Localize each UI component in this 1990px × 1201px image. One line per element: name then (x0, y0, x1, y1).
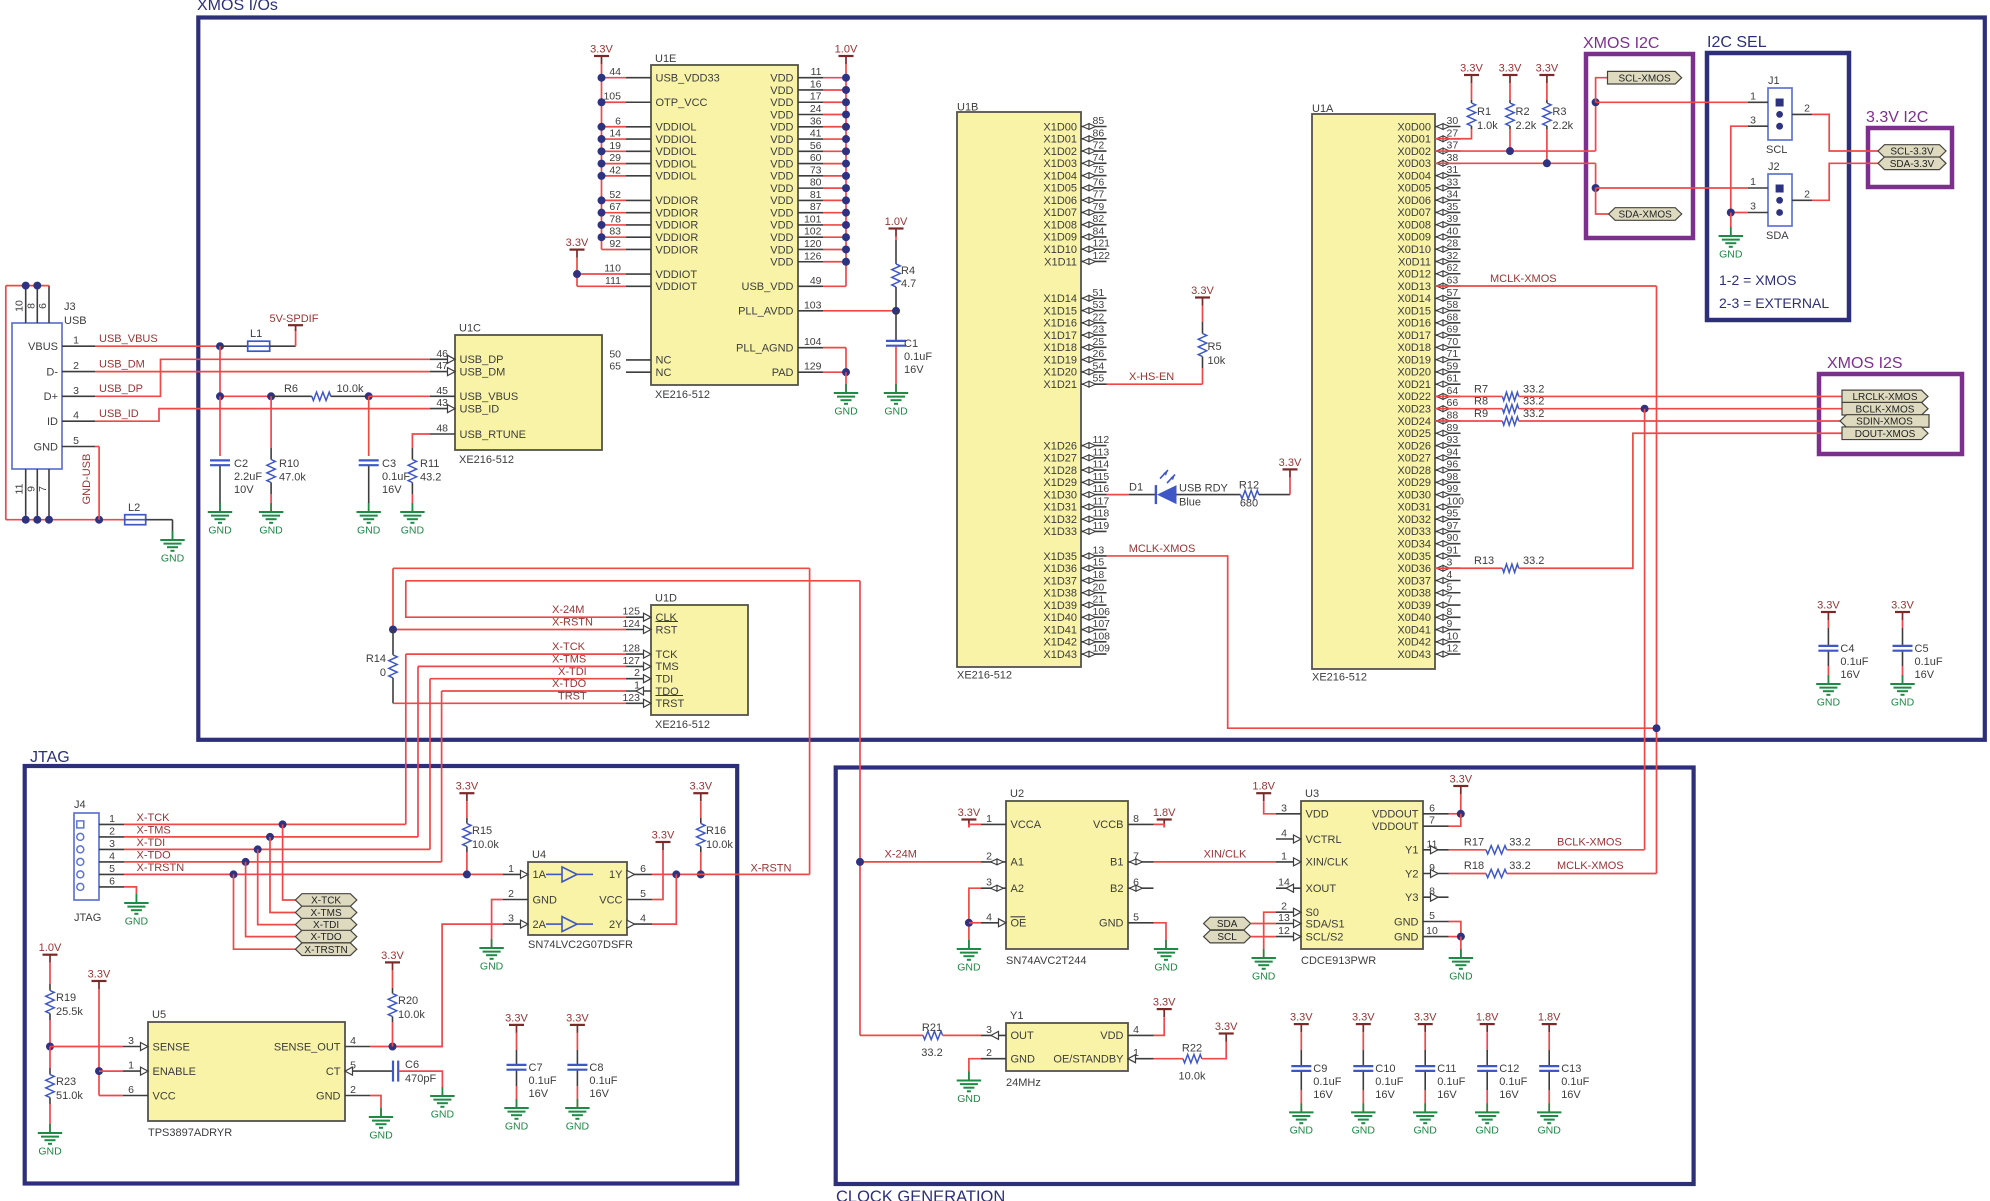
svg-text:83: 83 (609, 226, 621, 238)
svg-text:X0D03: X0D03 (1397, 158, 1431, 170)
U1A pin 98 X0D29 (1435, 481, 1461, 483)
svg-text:GND: GND (208, 524, 232, 536)
svg-text:I2C SEL: I2C SEL (1707, 34, 1767, 51)
svg-text:16: 16 (810, 78, 822, 90)
svg-text:2: 2 (986, 1047, 992, 1059)
buffer symbol 2 (562, 917, 577, 932)
net flag BCLK-XMOS (1842, 402, 1928, 415)
svg-text:VDDOUT: VDDOUT (1372, 821, 1419, 833)
U1E pin 16 VDD (798, 89, 823, 91)
svg-text:13: 13 (1278, 912, 1290, 924)
svg-text:121: 121 (1093, 238, 1111, 250)
svg-text:1.8V: 1.8V (1538, 1012, 1561, 1024)
junction (842, 160, 850, 168)
U1B pin 119 X1D33 (1081, 530, 1107, 532)
svg-text:VCTRL: VCTRL (1306, 834, 1342, 846)
svg-text:X1D04: X1D04 (1043, 170, 1077, 182)
power 3.3V for VDDIOT (566, 237, 589, 258)
svg-text:SN74AVC2T244: SN74AVC2T244 (1006, 955, 1087, 967)
J4 pin 3 (99, 848, 124, 850)
U1B pin 76 X1D05 (1081, 187, 1107, 189)
U1C pin 45 USB_VBUS (430, 395, 455, 397)
frame: XMOS I2S box (1819, 374, 1962, 454)
svg-text:58: 58 (1447, 299, 1459, 311)
junction (598, 135, 606, 143)
svg-text:3.3V: 3.3V (505, 1012, 528, 1024)
net flag DOUT-XMOS (1842, 427, 1928, 440)
svg-text:X0D36: X0D36 (1397, 563, 1431, 575)
Y1 pin 4 VDD (1128, 1034, 1154, 1036)
svg-text:S0: S0 (1306, 907, 1319, 919)
svg-text:USB_DP: USB_DP (99, 383, 143, 395)
svg-text:X-RSTN: X-RSTN (552, 617, 593, 629)
U1A pin 4 X0D37 (1435, 579, 1461, 581)
svg-text:XE216-512: XE216-512 (459, 454, 514, 466)
svg-text:45: 45 (436, 385, 448, 397)
resistor R18 33.2 MCLK-XMOS (1449, 873, 1487, 875)
svg-text:X0D27: X0D27 (1397, 453, 1431, 465)
U1A pin 100 X0D31 (1435, 506, 1461, 508)
junction (598, 147, 606, 155)
svg-text:73: 73 (810, 164, 822, 176)
junction X-TRSTN (230, 870, 238, 878)
svg-text:XE216-512: XE216-512 (957, 670, 1012, 682)
svg-text:35: 35 (1447, 201, 1459, 213)
svg-text:3: 3 (1750, 201, 1756, 213)
svg-text:X0D24: X0D24 (1397, 416, 1431, 428)
U1D pin 123 TRST (626, 702, 651, 704)
svg-text:USB: USB (64, 315, 87, 327)
svg-text:4.7: 4.7 (901, 278, 916, 290)
U1A pin 27 X0D01 (1435, 138, 1461, 140)
capacitor C10 0.1uF (1352, 1012, 1375, 1033)
svg-text:37: 37 (1447, 140, 1459, 152)
svg-text:R4: R4 (901, 265, 915, 277)
svg-text:USB_VDD33: USB_VDD33 (656, 73, 720, 85)
junction (598, 221, 606, 229)
svg-text:4: 4 (350, 1035, 356, 1047)
svg-text:XIN/CLK: XIN/CLK (1306, 857, 1349, 869)
junction (842, 123, 850, 131)
junction GND (1457, 933, 1465, 941)
J4 pin6 wire to GND (124, 887, 136, 903)
svg-text:X0D31: X0D31 (1397, 502, 1431, 514)
wire shield left rail (5, 286, 7, 520)
junction R15 (463, 870, 471, 878)
svg-text:65: 65 (609, 361, 621, 373)
xmos U1B (XE216-512 tile1 IO) (957, 112, 1081, 667)
U5 pin 5 CT (345, 1070, 370, 1072)
svg-text:X0D04: X0D04 (1397, 170, 1431, 182)
svg-text:0.1uF: 0.1uF (529, 1075, 557, 1087)
svg-text:X0D00: X0D00 (1397, 121, 1431, 133)
junction R20/SENSE_OUT (389, 1043, 397, 1051)
U1A pin 5 X0D38 (1435, 592, 1461, 594)
svg-text:GND: GND (161, 552, 185, 564)
svg-text:103: 103 (804, 299, 822, 311)
svg-text:2-3 = EXTERNAL: 2-3 = EXTERNAL (1719, 295, 1829, 311)
U1E pin 52 VDDIOR (626, 199, 651, 201)
level shifter U2 SN74AVC2T244 (1006, 801, 1128, 949)
svg-text:120: 120 (804, 238, 822, 250)
U1C pin 48 USB_RTUNE (430, 433, 455, 435)
J1 pin 3 stub + wire to GND rail (1748, 125, 1768, 127)
J1 pin 1 stub (1748, 101, 1768, 103)
svg-text:CT: CT (326, 1066, 341, 1078)
svg-text:32: 32 (1447, 250, 1459, 262)
U4 pin 6 1Y (627, 873, 652, 875)
xmos U1A (XE216-512 tile0 IO) (1312, 114, 1435, 669)
U1E pin 111 VDDIOT (626, 285, 651, 287)
svg-text:VBUS: VBUS (28, 341, 58, 353)
Y1 VDD 3.3V (1153, 997, 1176, 1018)
U4 pin 3 2A (503, 923, 528, 925)
svg-text:18: 18 (1093, 569, 1105, 581)
svg-text:1.8V: 1.8V (1153, 807, 1176, 819)
svg-text:XOUT: XOUT (1306, 883, 1337, 895)
svg-text:1: 1 (73, 335, 79, 347)
svg-text:X1D29: X1D29 (1043, 477, 1077, 489)
U1B pin 107 X1D41 (1081, 629, 1107, 631)
svg-text:VDD: VDD (770, 122, 793, 134)
net flag X-TDI (295, 918, 356, 931)
svg-text:X1D43: X1D43 (1043, 649, 1077, 661)
J4 pin 6 (99, 886, 124, 888)
svg-text:22: 22 (1093, 311, 1105, 323)
svg-text:125: 125 (622, 606, 640, 618)
svg-text:C12: C12 (1499, 1063, 1519, 1075)
wire X-24M right vertical down to clock (859, 581, 861, 1036)
wire X-TCK row (124, 823, 406, 825)
J4 pin 1 (99, 823, 124, 825)
svg-text:97: 97 (1447, 520, 1459, 532)
wire SCL net X0D02 (1435, 150, 1596, 152)
svg-text:A1: A1 (1011, 857, 1024, 869)
svg-text:2: 2 (1281, 901, 1287, 913)
wire X-TCK vertical (406, 653, 626, 655)
U1B pin 122 X1D11 (1081, 260, 1107, 262)
U5 pin 3 SENSE (123, 1046, 148, 1048)
svg-text:4: 4 (640, 913, 646, 925)
svg-text:19: 19 (609, 140, 621, 152)
U1B pin 115 X1D29 (1081, 481, 1107, 483)
oscillator Y1 24MHz (1006, 1023, 1128, 1071)
svg-text:12: 12 (1278, 925, 1290, 937)
U1B pin 51 X1D14 (1081, 297, 1107, 299)
svg-text:J1: J1 (1768, 75, 1780, 87)
svg-text:CLOCK GENERATION: CLOCK GENERATION (836, 1188, 1005, 1201)
svg-text:GND: GND (34, 441, 59, 453)
frame: XMOS I/Os sheet box (198, 18, 1985, 740)
U1A pin 64 X0D22 (1435, 395, 1461, 397)
svg-text:X-RSTN: X-RSTN (751, 863, 792, 875)
svg-text:SDA/S1: SDA/S1 (1306, 918, 1345, 930)
junction (842, 111, 850, 119)
U1B pin 72 X1D02 (1081, 150, 1107, 152)
svg-text:X0D42: X0D42 (1397, 637, 1431, 649)
U1B pin 53 X1D15 (1081, 310, 1107, 312)
svg-text:R1: R1 (1477, 106, 1491, 118)
net MCLK-XMOS from X1D35 (1107, 556, 1657, 728)
svg-text:X0D17: X0D17 (1397, 330, 1431, 342)
svg-text:R3: R3 (1552, 106, 1566, 118)
svg-text:10k: 10k (1208, 355, 1226, 367)
svg-text:X0D09: X0D09 (1397, 232, 1431, 244)
svg-text:70: 70 (1447, 336, 1459, 348)
resistor R4 4.7 on PLL_AVDD (885, 216, 908, 237)
wire SDA net X0D03 (1435, 162, 1596, 164)
J3 pin 2 D- (62, 371, 95, 373)
svg-text:R8: R8 (1474, 396, 1488, 408)
svg-text:GND: GND (533, 894, 558, 906)
U5 pin 1 ENABLE (123, 1070, 148, 1072)
frame: XMOS I2C box (1586, 54, 1693, 238)
J3 pin 3 D+ (62, 395, 95, 397)
svg-text:89: 89 (1447, 422, 1459, 434)
svg-text:U2: U2 (1010, 788, 1024, 800)
resistor R16 10.0k pullup (689, 781, 712, 802)
svg-text:3.3V: 3.3V (1279, 457, 1302, 469)
wire VBUS divider row (219, 346, 221, 396)
svg-text:C8: C8 (589, 1062, 603, 1074)
xmos U1E (XE216-512 power slice) (651, 65, 798, 385)
U3 pin 3 VDD (1276, 813, 1301, 815)
junction (598, 172, 606, 180)
svg-text:RST: RST (656, 624, 678, 636)
svg-text:1: 1 (1281, 850, 1287, 862)
wire SCL up to J1 pin1 row (1595, 102, 1597, 151)
svg-text:X0D25: X0D25 (1397, 428, 1431, 440)
junction (842, 258, 850, 266)
svg-text:R16: R16 (706, 825, 726, 837)
svg-text:XE216-512: XE216-512 (655, 719, 710, 731)
svg-text:10.0k: 10.0k (398, 1009, 425, 1021)
overline on OE label (1011, 916, 1026, 918)
svg-text:X1D26: X1D26 (1043, 440, 1077, 452)
junction PLL_AVDD/C1 (892, 307, 900, 315)
buffer U4 SN74LVC2G07 (528, 862, 627, 935)
svg-text:XIN/CLK: XIN/CLK (1204, 849, 1247, 861)
U1E pin 17 VDD (798, 101, 823, 103)
svg-text:0.1uF: 0.1uF (1313, 1076, 1341, 1088)
svg-text:85: 85 (1093, 115, 1105, 127)
svg-text:VDD: VDD (770, 73, 793, 85)
U5 pin 2 GND (345, 1095, 370, 1097)
svg-text:X-TCK: X-TCK (137, 812, 171, 824)
junction VDDIOT (573, 270, 581, 278)
svg-text:X1D40: X1D40 (1043, 612, 1077, 624)
U4 pin 5 VCC (627, 899, 652, 901)
wire 3.3V rail to pins (602, 77, 627, 79)
svg-text:78: 78 (609, 213, 621, 225)
capacitor C12 0.1uF (1476, 1012, 1499, 1033)
svg-text:52: 52 (609, 189, 621, 201)
U1E pin 50 NC (626, 359, 651, 361)
svg-text:63: 63 (1447, 275, 1459, 287)
svg-text:R20: R20 (398, 995, 418, 1007)
resistor R10 47.0k (270, 396, 272, 448)
svg-text:X1D15: X1D15 (1043, 305, 1077, 317)
svg-text:66: 66 (1447, 397, 1459, 409)
resistor R2 2.2k pullup SCL (1499, 63, 1522, 84)
svg-text:U1D: U1D (655, 593, 677, 605)
svg-text:VCCA: VCCA (1011, 819, 1042, 831)
svg-text:Y1: Y1 (1010, 1010, 1023, 1022)
svg-text:5: 5 (640, 888, 646, 900)
U1A pin 33 X0D05 (1435, 187, 1461, 189)
svg-text:X0D43: X0D43 (1397, 649, 1431, 661)
svg-text:74: 74 (1093, 152, 1105, 164)
svg-text:X0D40: X0D40 (1397, 612, 1431, 624)
clock gen U3 CDCE913PWR (1301, 801, 1423, 949)
svg-text:GND: GND (431, 1108, 455, 1120)
wire X-TRSTN to flag (234, 874, 296, 949)
svg-text:10V: 10V (234, 484, 254, 496)
junction (598, 233, 606, 241)
U3 pin 11 Y1 (1423, 849, 1449, 851)
svg-text:10: 10 (1447, 630, 1459, 642)
svg-text:VDD: VDD (1100, 1030, 1123, 1042)
supervisor U5 TPS3897A (148, 1022, 345, 1121)
svg-text:105: 105 (603, 91, 621, 103)
U3 pin 14 XOUT (1276, 887, 1301, 889)
U1A pin 90 X0D34 (1435, 543, 1461, 545)
svg-text:JTAG: JTAG (30, 749, 70, 766)
svg-text:16V: 16V (1313, 1089, 1333, 1101)
svg-text:3: 3 (1750, 115, 1756, 127)
svg-text:SCL/S2: SCL/S2 (1306, 931, 1344, 943)
svg-text:SCL: SCL (1217, 932, 1237, 943)
U2 pin 2 A1 (981, 861, 1006, 863)
J3 pin 5 GND (62, 446, 95, 448)
svg-text:127: 127 (622, 655, 640, 667)
U3 VDDOUT 3.3V (1449, 774, 1472, 795)
svg-text:10: 10 (14, 300, 26, 312)
U1B pin 84 X1D09 (1081, 236, 1107, 238)
svg-text:GND: GND (1394, 916, 1419, 928)
U1A pin 89 X0D25 (1435, 432, 1461, 434)
svg-text:X-24M: X-24M (552, 604, 584, 616)
svg-text:95: 95 (1447, 508, 1459, 520)
svg-text:108: 108 (1093, 630, 1111, 642)
junction (842, 98, 850, 106)
U1E pin 78 VDDIOR (626, 224, 651, 226)
svg-text:GND: GND (1449, 970, 1473, 982)
svg-text:VDDIOL: VDDIOL (656, 158, 697, 170)
svg-text:42: 42 (609, 164, 621, 176)
svg-text:R7: R7 (1474, 383, 1488, 395)
svg-text:U1A: U1A (1312, 103, 1334, 115)
svg-text:U1B: U1B (957, 102, 978, 114)
svg-text:3.3V: 3.3V (1352, 1012, 1375, 1024)
svg-text:33.2: 33.2 (1509, 860, 1530, 872)
resistor R8 33.2 BCLK (1435, 408, 1502, 410)
svg-text:4: 4 (1447, 569, 1453, 581)
capacitor C13 0.1uF (1538, 1012, 1561, 1033)
svg-text:117: 117 (1093, 495, 1110, 507)
svg-text:114: 114 (1093, 459, 1110, 471)
svg-text:XMOS I2C: XMOS I2C (1583, 35, 1659, 52)
U1A pin 28 X0D10 (1435, 248, 1461, 250)
J4 pin 2 (99, 836, 124, 838)
svg-text:43.2: 43.2 (420, 472, 441, 484)
junction X-TDI (254, 845, 262, 853)
junction (598, 196, 606, 204)
resistor R9 33.2 SDIN (1435, 420, 1502, 422)
svg-text:C5: C5 (1915, 643, 1929, 655)
svg-text:124: 124 (622, 618, 640, 630)
svg-text:5: 5 (1447, 581, 1453, 593)
svg-text:VDDOUT: VDDOUT (1372, 809, 1419, 821)
svg-text:33: 33 (1447, 176, 1459, 188)
svg-text:6: 6 (1429, 802, 1435, 814)
svg-text:DOUT-XMOS: DOUT-XMOS (1855, 429, 1916, 440)
U1A pin 34 X0D06 (1435, 199, 1461, 201)
svg-text:1Y: 1Y (609, 869, 623, 881)
svg-text:6: 6 (640, 863, 646, 875)
svg-text:93: 93 (1447, 434, 1459, 446)
U1B pin 20 X1D38 (1081, 592, 1107, 594)
svg-text:VCC: VCC (153, 1090, 176, 1102)
svg-text:2: 2 (1804, 189, 1810, 201)
svg-text:3.3V: 3.3V (1191, 285, 1214, 297)
U1D pin 127 TMS (626, 665, 651, 667)
svg-text:118: 118 (1093, 508, 1110, 520)
svg-text:X0D12: X0D12 (1397, 269, 1431, 281)
svg-text:X1D37: X1D37 (1043, 575, 1077, 587)
junction 2Y loop (672, 870, 680, 878)
junction X-TCK (279, 820, 287, 828)
svg-text:VDD: VDD (770, 171, 793, 183)
U1B pin 75 X1D04 (1081, 175, 1107, 177)
resistor R15 10.0k pullup (456, 781, 479, 802)
svg-text:2.2uF: 2.2uF (234, 471, 262, 483)
U2 pin 8 VCCB (1128, 823, 1154, 825)
svg-text:26: 26 (1093, 348, 1105, 360)
svg-text:NC: NC (656, 355, 672, 367)
resistor R11 43.2 on USB_RTUNE (412, 434, 430, 448)
U1E pin 67 VDDIOR (626, 212, 651, 214)
U1E pin 60 VDD (798, 163, 823, 165)
wire X-TDI to flag (258, 849, 296, 924)
svg-text:16V: 16V (1840, 669, 1860, 681)
wire TRST (393, 702, 626, 704)
U1B pin 117 X1D31 (1081, 506, 1107, 508)
J2 pin 3 stub (1748, 212, 1768, 214)
svg-text:SENSE_OUT: SENSE_OUT (274, 1041, 341, 1053)
connector J3 USB (12, 323, 62, 469)
svg-text:USB_RTUNE: USB_RTUNE (460, 429, 526, 441)
net flag SCL (1204, 930, 1251, 943)
svg-text:VDD: VDD (770, 244, 793, 256)
svg-text:D1: D1 (1129, 482, 1143, 494)
svg-text:GND: GND (369, 1129, 393, 1141)
svg-text:GND: GND (1099, 918, 1124, 930)
svg-text:X0D13: X0D13 (1397, 281, 1431, 293)
svg-text:VDDIOR: VDDIOR (656, 220, 699, 232)
frame: CLOCK GENERATION sheet box (836, 768, 1694, 1185)
svg-text:680: 680 (1240, 498, 1258, 510)
svg-text:JTAG: JTAG (74, 912, 101, 924)
svg-text:4: 4 (109, 850, 115, 862)
svg-text:84: 84 (1093, 225, 1105, 237)
svg-text:X1D09: X1D09 (1043, 232, 1077, 244)
svg-text:34: 34 (1447, 189, 1459, 201)
U3 pin 10 GND (1423, 936, 1449, 938)
svg-text:81: 81 (810, 189, 822, 201)
svg-text:J2: J2 (1768, 161, 1780, 173)
svg-text:46: 46 (436, 348, 448, 360)
